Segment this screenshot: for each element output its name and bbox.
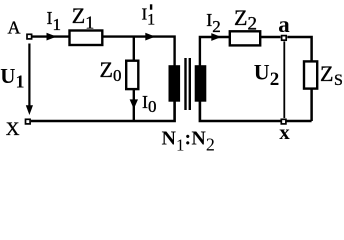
svg-text:a: a [278, 12, 290, 37]
svg-text:X: X [6, 119, 20, 140]
svg-text:I1: I1 [47, 8, 62, 34]
transformer T1 secondary winding [195, 65, 207, 102]
svg-text:U2: U2 [254, 60, 279, 90]
impedance Zs [304, 61, 317, 88]
wire: Zs to bottom [310, 89, 313, 121]
wire: secondary top transformer to a [200, 37, 281, 66]
impedance Z2 [230, 31, 260, 45]
svg-text:x: x [279, 120, 290, 144]
wire: Z0 branch from node to box [133, 37, 135, 61]
wire: bottom primary X to transformer [31, 101, 175, 121]
terminal X [26, 119, 31, 124]
transformer T1 core line 1 [184, 58, 186, 110]
voltage arrow U1 [28, 44, 30, 107]
terminal a [282, 36, 287, 41]
current arrow I1 [47, 33, 57, 41]
current arrow I2 [211, 33, 221, 41]
terminal A [27, 34, 32, 39]
terminal x [281, 119, 286, 124]
svg-text:ZS: ZS [320, 61, 343, 89]
svg-text:Z0: Z0 [100, 57, 122, 85]
prime mark of I1prime [150, 4, 152, 9]
measurement line a to x [283, 41, 285, 118]
svg-text:A: A [8, 18, 21, 38]
wire: top primary A to transformer [32, 37, 175, 66]
svg-text:Z1: Z1 [72, 3, 94, 33]
impedance Z0 [126, 61, 138, 89]
wire: Z0 box to bottom wire [133, 89, 135, 121]
impedance Z1 [70, 31, 103, 46]
svg-text:I2: I2 [206, 10, 221, 36]
svg-text:N1:N2: N1:N2 [162, 128, 215, 155]
transformer T1 core line 2 [189, 58, 191, 110]
current arrow I0 [130, 99, 138, 109]
svg-text:I1: I1 [142, 4, 156, 28]
svg-text:I0: I0 [142, 92, 157, 116]
transformer T1 primary winding [169, 65, 181, 102]
wire: bottom secondary transformer to x to load [200, 101, 312, 121]
current arrow I1prime [145, 33, 155, 41]
wire: a to load corner [287, 37, 311, 61]
svg-text:U1: U1 [0, 64, 24, 92]
